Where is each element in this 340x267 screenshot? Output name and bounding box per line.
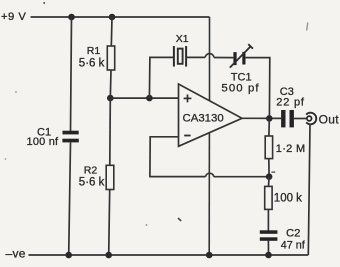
wire +9V rail [31,16,210,18]
wire X1 to hop [186,56,205,58]
wire inverting loop vertical [149,136,151,177]
scan speck diagonal below op-amp [178,218,181,221]
capacitor C1 [62,131,78,143]
svg-text:500 pf: 500 pf [221,83,259,95]
wire R1 top [110,17,113,46]
resistor 100k [265,186,272,209]
crystal X1 [174,46,186,67]
svg-text:1·2 M: 1·2 M [276,143,306,155]
node feedback junction [266,173,273,180]
scan speck dot left [15,91,17,93]
wire C2 bottom [267,240,269,255]
resistor 1.2M [265,136,272,159]
svg-text:Out: Out [319,112,340,126]
node crystal branch junction [146,95,153,102]
wire crystal row left [149,56,173,58]
node noninverting input junction [107,95,114,102]
svg-text:22 pf: 22 pf [276,96,305,108]
wire 1.2M top [268,118,270,136]
resistor R2 [106,165,114,189]
wire C3 to Out terminal [294,118,306,120]
wire hop to TC1 [214,57,233,59]
wire op-amp output [242,117,281,119]
capacitor C2 [260,230,278,241]
wire R2 bottom [109,190,110,256]
wire crystal branch vertical [148,57,151,99]
scan tick right of feedback junction [271,171,275,173]
node -ve/R2 junction [105,252,112,259]
svg-text:CA3130: CA3130 [183,113,224,125]
wire -ve rail [29,254,309,256]
wire feedback hop over V- line [206,173,214,176]
scan speck dot far left [5,158,7,160]
svg-text:+9 V: +9 V [1,11,26,23]
svg-text:5·6 k: 5·6 k [79,177,105,189]
wire C1 top [71,17,72,131]
wire R1 bottom [109,70,112,98]
wire op-amp V+ supply [209,17,211,101]
wire 100k top [268,177,271,187]
svg-text:47 nf: 47 nf [281,239,306,251]
wire noninverting input row [110,97,178,99]
wire op-amp V- supply [208,133,210,255]
scan speck dot lower mid [146,224,148,226]
svg-text:100 nf: 100 nf [27,136,60,148]
scan speck tick upper right [307,23,308,31]
wire 1.2M bottom [268,158,270,176]
wire TC1 right with corner down to output node [246,58,270,119]
svg-text:–ve: –ve [6,247,26,261]
resistor R1 [107,46,114,70]
wire 100k bottom [267,209,269,230]
svg-text:R1: R1 [87,45,101,57]
node rail/R1 junction [109,14,116,21]
node -ve/C2 junction [265,252,272,259]
node output junction [266,115,273,122]
scan speck dot top [43,2,45,4]
svg-text:C2: C2 [286,228,300,240]
node -ve/C1 junction [65,252,72,259]
wire R2 top [109,98,112,165]
svg-text:100 k: 100 k [274,192,302,204]
wire inverting input row [150,136,178,138]
svg-text:TC1: TC1 [231,71,252,83]
svg-text:X1: X1 [176,33,189,45]
svg-text:5·6 k: 5·6 k [79,58,105,70]
node rail/C1 junction [68,14,75,21]
wire hop over V+ line [205,53,214,57]
wire feedback row left [150,176,206,178]
wire Out shield down [308,124,310,255]
wire feedback row right [214,176,269,178]
node -ve/V- junction [206,252,213,259]
capacitor C3 [281,110,294,127]
svg-text:R2: R2 [84,165,98,177]
wire C1 bottom [69,142,71,255]
terminal Out [306,113,316,125]
trimmer capacitor TC1 [230,44,253,67]
op-amp U1 CA3130 [179,84,243,146]
